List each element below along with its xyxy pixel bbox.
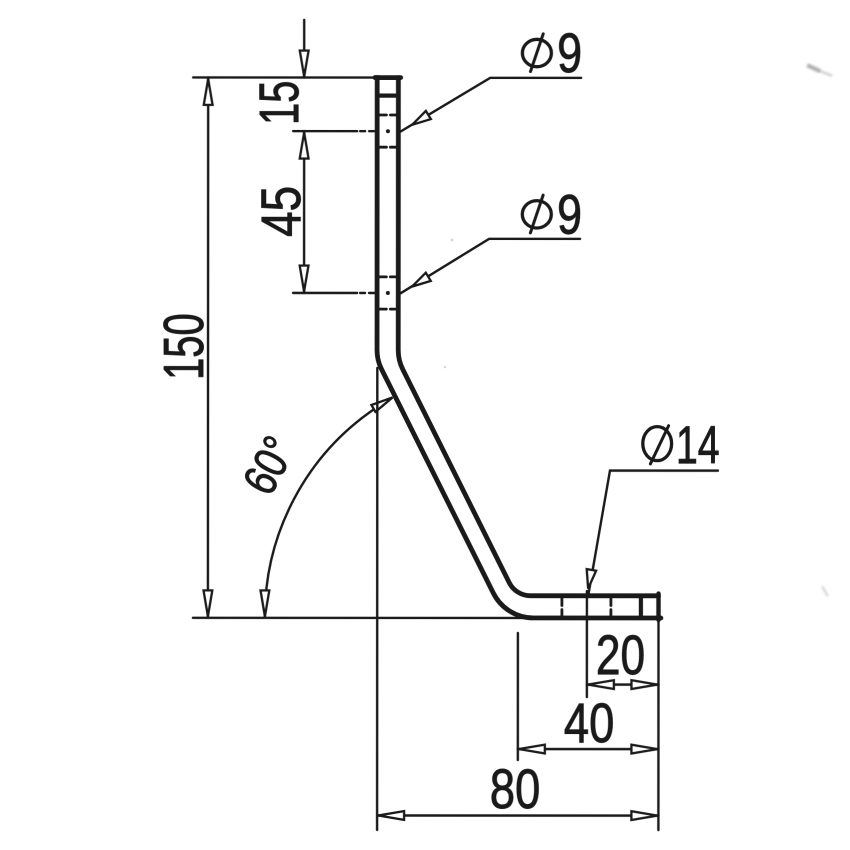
arrow 15 down: [300, 51, 309, 77]
foot hole hidden line right edge: [609, 599, 612, 617]
part outline: left/outer edge of bent bar: [375, 78, 661, 618]
part outline: right end cap of foot: [656, 594, 660, 620]
extension line top (at bar top): [193, 76, 374, 78]
hole 1 hidden line upper edge: [379, 114, 396, 117]
60 degree angular dimension arc: [265, 408, 376, 617]
hole 2 center mark dot: [386, 291, 390, 295]
extension line below bend (vertical, left of 80 dim): [376, 368, 379, 830]
arrow 20 left: [588, 680, 614, 689]
svg-text:150: 150: [152, 313, 216, 380]
diameter symbol foot hole: [643, 427, 672, 461]
baseline extension (bottom of foot, to the left): [193, 617, 530, 620]
arrow 150 top: [204, 79, 213, 105]
leader arrow hole1: [412, 111, 431, 125]
arrow 20 right: [631, 680, 657, 689]
svg-text:9: 9: [557, 21, 582, 84]
part outline: right/inner edge of bent bar: [398, 78, 659, 596]
arrow 45 down: [300, 266, 309, 292]
dimension line 40: [518, 748, 659, 750]
svg-text:45: 45: [250, 186, 312, 237]
svg-text:14: 14: [676, 415, 720, 474]
svg-text:15: 15: [249, 81, 311, 125]
arrow 45 up: [300, 133, 309, 159]
foot hole center line: [586, 591, 588, 697]
leader hole2: [401, 239, 581, 294]
dimension line 45: [303, 131, 305, 293]
hole 2 hidden line lower edge: [379, 308, 396, 311]
leader arrow foot hole: [587, 569, 596, 589]
dimension line 150: [207, 77, 210, 617]
leader foot hole: [588, 471, 718, 596]
dimension line 80: [377, 814, 658, 817]
chain dashes hole2 center line: [360, 292, 377, 294]
svg-text:80: 80: [490, 757, 540, 820]
hole 2 hidden line upper edge: [379, 275, 396, 278]
leader hole1: [401, 78, 582, 132]
extension line 40 left: [517, 633, 519, 760]
svg-text:9: 9: [557, 183, 582, 246]
svg-text:20: 20: [596, 623, 645, 686]
chain dashes hole1 center line: [360, 130, 377, 132]
arrow 150 bottom: [203, 590, 212, 616]
arrow 40 left: [519, 745, 545, 754]
arrow 40 right: [631, 745, 657, 754]
dimension line 20: [587, 683, 659, 685]
leader arrow hole2: [412, 273, 431, 287]
diameter symbol hole1: [522, 39, 551, 66]
arrow 60deg bottom: [260, 590, 269, 616]
solid line near right end of foot: [639, 596, 643, 618]
dimension line 15 (upper segment with down arrow): [303, 20, 305, 78]
part outline: top end cap of vertical bar: [375, 75, 401, 80]
solid line across bar 5mm below top: [377, 93, 398, 97]
foot hole hidden line left edge: [560, 599, 563, 617]
svg-text:40: 40: [564, 692, 614, 755]
extension line right end of foot: [657, 620, 660, 830]
diameter symbol hole2: [522, 201, 551, 228]
hole 1 hidden line lower edge: [379, 146, 396, 149]
arrow 80 right: [631, 811, 657, 820]
arrow 60deg top: [371, 397, 392, 411]
extension line hole1 center: [293, 130, 357, 132]
arrow 80 left: [378, 811, 404, 820]
hole 1 center mark dot: [386, 129, 390, 133]
extension line hole2 center: [293, 292, 357, 294]
